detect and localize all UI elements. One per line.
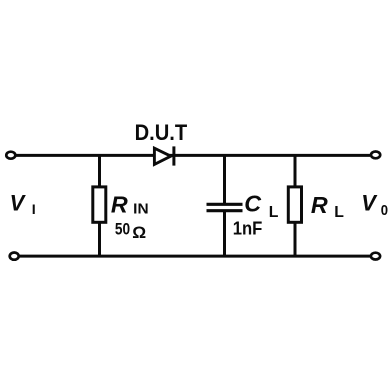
svg-text:I: I: [32, 202, 36, 218]
svg-text:D.U.T: D.U.T: [135, 120, 188, 145]
svg-text:R: R: [311, 192, 328, 218]
wire C_L branch lower: [223, 212, 226, 256]
svg-text:50: 50: [115, 221, 130, 239]
svg-text:Ω: Ω: [132, 223, 146, 242]
svg-text:R: R: [111, 192, 128, 218]
diode D.U.T cathode bar: [172, 146, 175, 165]
svg-text:V: V: [361, 191, 378, 216]
wire C_L branch upper: [223, 154, 226, 203]
svg-text:1nF: 1nF: [233, 218, 263, 239]
capacitor C_L bottom plate: [207, 209, 243, 212]
resistor R_L body: [288, 187, 301, 222]
svg-text:V: V: [10, 191, 27, 216]
svg-text:C: C: [244, 191, 262, 217]
resistor R_IN body: [93, 187, 106, 222]
diode D.U.T triangle: [154, 148, 170, 164]
terminal bottom-right: [371, 253, 380, 260]
svg-text:0: 0: [381, 203, 388, 219]
wire top rail: [16, 154, 371, 157]
terminal top-right: [371, 152, 380, 159]
svg-text:L: L: [334, 204, 344, 221]
wire R_IN branch: [98, 154, 101, 256]
terminal top-left: [6, 152, 15, 159]
capacitor C_L top plate: [207, 203, 243, 206]
svg-text:L: L: [269, 204, 279, 221]
svg-text:IN: IN: [133, 201, 148, 217]
wire R_L branch: [294, 154, 297, 256]
terminal bottom-left: [10, 253, 19, 260]
wire bottom rail: [20, 255, 371, 258]
